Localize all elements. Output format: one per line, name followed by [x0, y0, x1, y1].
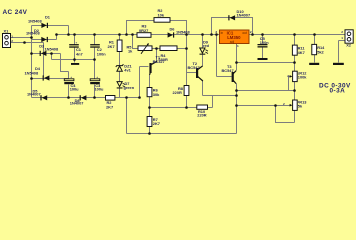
svg-text:3: 3 — [215, 30, 217, 34]
wire T3 base chain — [217, 35, 232, 77]
wire T3 collector to IC1 adj — [236, 44, 238, 71]
svg-text:2K7: 2K7 — [153, 121, 160, 126]
wire R11 R12 R13 column — [294, 35, 296, 101]
svg-text:1N4007: 1N4007 — [27, 91, 41, 96]
ground under C5 — [258, 58, 268, 60]
diode D1 — [28, 15, 51, 28]
wire base line y106.5 — [150, 107, 213, 109]
svg-text:1N5408: 1N5408 — [45, 47, 59, 52]
svg-text:100n: 100n — [260, 40, 269, 45]
diode D8 — [70, 95, 87, 105]
svg-text:D1: D1 — [45, 15, 51, 20]
wire C4 column — [68, 85, 70, 98]
diode D4 — [25, 66, 50, 81]
wire C5 column — [262, 35, 264, 59]
resistor R7 — [147, 117, 160, 127]
trimmer R5 — [127, 43, 153, 54]
svg-text:X2: X2 — [346, 43, 352, 48]
diode D3 — [39, 44, 59, 56]
svg-text:1N5408: 1N5408 — [28, 18, 42, 23]
svg-text:2K7: 2K7 — [108, 44, 115, 49]
wire AC1 left vertical — [31, 26, 33, 98]
wire T1 collector emitter — [150, 49, 157, 88]
svg-text:red: red — [203, 43, 210, 48]
wire ground line riser — [51, 54, 53, 60]
transistor T1 — [149, 55, 164, 73]
svg-text:2: 2 — [283, 102, 285, 106]
svg-text:2K7: 2K7 — [106, 104, 113, 109]
diode D6 — [168, 26, 191, 37]
wire R8 column with T2 base tap — [187, 35, 197, 108]
wire X2 pin1 lead to ground — [339, 41, 345, 63]
resistor R9 on aux line — [106, 96, 115, 110]
wire T3 emitter drop — [236, 84, 238, 134]
ground under X2 pin1 — [333, 63, 344, 65]
svg-text:4K7: 4K7 — [298, 50, 305, 55]
resistor R6 — [147, 88, 160, 97]
wire D3 branch — [32, 54, 69, 79]
transistor T2 — [188, 61, 200, 78]
wire D1 branch — [32, 26, 69, 35]
resistor R3 — [137, 24, 151, 38]
wire adj line y63 — [237, 62, 295, 64]
resistor R2 — [154, 8, 170, 22]
svg-text:0-3A: 0-3A — [330, 88, 346, 95]
capacitor C2 — [90, 44, 106, 56]
wire R2 bypass loop — [127, 21, 187, 35]
diode D5 — [27, 89, 47, 101]
ground symbol on filter common — [74, 60, 76, 63]
svg-text:220R: 220R — [197, 112, 206, 117]
resistor R1 — [108, 40, 123, 52]
svg-text:in: in — [221, 31, 224, 35]
transistor T3 — [222, 64, 234, 82]
svg-text:+: + — [96, 75, 98, 79]
svg-text:4v1: 4v1 — [124, 68, 131, 73]
resistor R14 — [312, 44, 325, 54]
wire C2 C3 column — [94, 35, 96, 98]
svg-text:2: 2 — [11, 39, 13, 43]
svg-text:BC547: BC547 — [222, 68, 234, 73]
wire X1 pin2 lead — [11, 43, 44, 77]
connector X1 — [3, 28, 14, 47]
capacitor C1 — [69, 41, 83, 57]
svg-text:1: 1 — [341, 36, 343, 40]
svg-text:X1: X1 — [4, 28, 10, 33]
resistor R10 — [197, 105, 208, 117]
svg-text:1N5408: 1N5408 — [26, 30, 40, 35]
wire T1 base riser — [140, 67, 149, 98]
svg-text:30k: 30k — [153, 92, 160, 97]
IC regulator IC1 LM350 — [215, 30, 252, 48]
zener DZ1 — [116, 64, 133, 73]
svg-text:BC547: BC547 — [188, 65, 200, 70]
svg-text:100k: 100k — [298, 75, 307, 80]
svg-text:D6: D6 — [170, 26, 176, 31]
svg-text:10k: 10k — [158, 13, 165, 18]
ground under R14 — [309, 63, 319, 65]
wire D4 branch — [32, 78, 69, 80]
svg-text:220R: 220R — [173, 90, 182, 95]
svg-text:+: + — [70, 75, 72, 79]
wire y90 line — [237, 90, 295, 92]
wire R6 R7 column — [149, 97, 151, 134]
svg-text:1: 1 — [11, 34, 13, 38]
svg-text:+: + — [75, 41, 77, 45]
svg-text:BC327: BC327 — [153, 59, 165, 64]
capacitor C3 electrolytic — [90, 75, 104, 92]
wire D10 bypass loop — [212, 18, 253, 35]
wire ground line — [52, 59, 95, 61]
capacitor C4 electrolytic — [64, 75, 79, 92]
wire bottom rail — [127, 133, 237, 135]
LED D7 — [117, 81, 135, 90]
diode D2 — [26, 28, 48, 42]
wire aux negative line y97.8 — [32, 97, 140, 99]
wire D9 column and T2 collector — [202, 35, 204, 67]
svg-text:4n7: 4n7 — [76, 51, 83, 56]
wire top rail right (IC1 out to X2 pin 2) — [249, 34, 345, 36]
svg-text:2: 2 — [341, 30, 343, 34]
svg-text:0R27: 0R27 — [139, 28, 148, 33]
potentiometer R12 — [287, 71, 307, 82]
wire top rail left (D2 cathode to IC1 in) — [57, 34, 220, 36]
wire y104.5 line to R13 wiper — [237, 105, 291, 107]
capacitor C5 — [258, 36, 270, 48]
wire R14 column — [314, 35, 316, 63]
svg-text:out: out — [242, 31, 247, 35]
resistor R4 — [159, 46, 178, 62]
svg-text:100u: 100u — [95, 87, 104, 92]
svg-text:1N5408: 1N5408 — [25, 70, 39, 75]
svg-text:adj: adj — [230, 40, 235, 44]
svg-text:2: 2 — [250, 30, 252, 34]
diode D10 — [228, 9, 250, 21]
wire R5 R4 branch — [133, 35, 187, 49]
svg-text:green: green — [124, 85, 135, 90]
wire R12 wiper loop — [289, 77, 291, 91]
svg-text:1N4007: 1N4007 — [237, 13, 251, 18]
wire aux drop to bottom rail — [126, 98, 128, 134]
resistor R8 — [173, 86, 189, 96]
connector X2 — [341, 30, 353, 48]
resistor R11 — [292, 45, 305, 55]
svg-text:100u: 100u — [70, 87, 79, 92]
wire R10 riser and T2 emitter line — [203, 81, 237, 108]
wire D2 branch — [32, 35, 57, 40]
wire C1 column — [74, 35, 76, 60]
LED D9 — [200, 39, 210, 54]
svg-text:1N5408: 1N5408 — [176, 29, 190, 34]
potentiometer R13 — [283, 99, 307, 110]
wire R1 DZ1 D7 column — [119, 35, 121, 98]
wire X1 pin1 lead — [11, 37, 32, 39]
svg-text:AC 24V: AC 24V — [3, 9, 28, 16]
wire R13 wiper loop — [276, 106, 295, 123]
svg-text:5k2: 5k2 — [317, 49, 324, 54]
svg-text:1N4007: 1N4007 — [70, 101, 84, 106]
svg-text:2: 2 — [287, 74, 289, 78]
svg-text:1: 1 — [237, 44, 239, 48]
svg-text:100n: 100n — [97, 51, 106, 56]
